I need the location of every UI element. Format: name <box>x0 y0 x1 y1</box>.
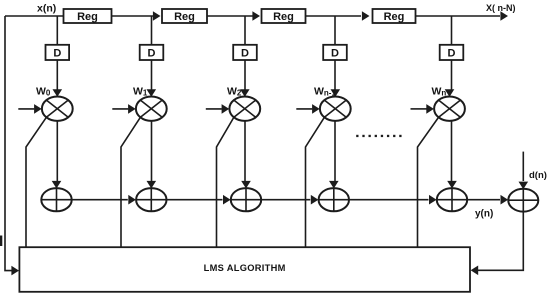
wire: y(n) output from adder A5 to error adder <box>467 199 500 201</box>
multiplier M3 (circle with X) <box>320 97 351 121</box>
svg-text:X( n-N): X( n-N) <box>486 3 516 13</box>
wire: weight input arrow into multiplier 2 <box>112 108 128 110</box>
svg-text:Reg: Reg <box>273 11 294 23</box>
wire: bus Reg1 to Reg2 <box>112 15 154 17</box>
wire: bus Reg3 to Reg4 <box>306 15 362 17</box>
svg-text:LMS ALGORITHM: LMS ALGORITHM <box>204 263 286 273</box>
wire: D output down into multiplier (column 2) <box>151 60 153 90</box>
wire: weight input arrow into multiplier 3 <box>206 108 222 110</box>
wire: tap 2 from bus down to delay D <box>151 16 153 45</box>
wire: D output down into multiplier (column 3) <box>244 60 246 90</box>
svg-text:D: D <box>53 48 61 60</box>
register Reg4 <box>373 9 416 23</box>
wire: adder A1 output to adder A2 <box>72 199 128 201</box>
svg-text:D: D <box>241 48 249 60</box>
wire: weight tap diagonal from multiplier 4 down to LMS block <box>306 117 325 247</box>
svg-text:D: D <box>148 48 156 60</box>
wire: multiplier 5 product down into adder <box>451 121 453 181</box>
multiplier M0 (circle with X) <box>42 97 73 121</box>
LMS algorithm block <box>19 247 470 292</box>
multiplier M4 (circle with X) <box>434 97 465 121</box>
wire: d(n) input down into error adder <box>522 152 524 181</box>
svg-text:Wn: Wn <box>432 85 447 97</box>
adder A4 (circle with +) <box>319 188 349 211</box>
delay block D (column 1) <box>46 45 70 60</box>
wire: multiplier 1 product down into adder <box>56 121 58 181</box>
dots: ellipsis between stage 4 and stage n <box>356 135 358 137</box>
artifact: dark mark on left edge <box>0 236 2 247</box>
multiplier M1 (circle with X) <box>136 97 167 121</box>
wire: bus Reg4 to output X(n-N) <box>416 15 501 17</box>
svg-text:W0: W0 <box>36 85 51 97</box>
adder A5 (circle with +) <box>437 188 467 211</box>
svg-text:d(n): d(n) <box>529 170 547 181</box>
wire: input bus from top-left corner to Reg1 <box>5 15 64 17</box>
svg-text:Reg: Reg <box>384 11 405 23</box>
wire: weight input arrow into multiplier 1 <box>18 108 34 110</box>
wire: multiplier 3 product down into adder <box>244 121 246 181</box>
wire: adder A3 output to adder A4 <box>261 199 310 201</box>
svg-text:W1: W1 <box>133 85 148 97</box>
wire: tap 4 from bus down to delay D <box>334 16 336 45</box>
wire: tap 3 from bus down to delay D <box>244 16 246 45</box>
svg-text:Reg: Reg <box>77 11 98 23</box>
wire: D output down into multiplier (column 5) <box>451 60 453 90</box>
svg-text:Reg: Reg <box>174 11 195 23</box>
wire: weight tap diagonal from multiplier 5 down to LMS block <box>418 117 439 247</box>
delay block D (column 2) <box>140 45 164 60</box>
delay block D (column 5) <box>440 45 464 60</box>
register Reg1 <box>64 9 112 23</box>
wire: adder A4 output to adder A5 <box>349 199 429 201</box>
wire: adder A2 output to adder A3 <box>167 199 223 201</box>
adder A1 (circle with +) <box>41 188 71 211</box>
wire: D output down into multiplier (column 1) <box>56 60 58 90</box>
svg-text:D: D <box>448 48 456 60</box>
wire: multiplier 2 product down into adder <box>151 121 153 181</box>
wire: weight input arrow into multiplier 4 <box>296 108 312 110</box>
wire: feedback from x(n) bus down left side into LMS input <box>5 16 12 271</box>
wire: weight tap diagonal from multiplier 3 down to LMS block <box>217 117 234 247</box>
wire: tap 1 from bus down to delay D <box>56 16 58 45</box>
svg-text:W2: W2 <box>227 85 242 97</box>
wire: bus Reg2 to Reg3 <box>207 15 253 17</box>
register Reg3 <box>262 9 306 23</box>
wire: weight tap diagonal from multiplier 1 down to LMS block <box>26 117 46 247</box>
delay block D (column 4) <box>323 45 347 60</box>
wire: multiplier 4 product down into adder <box>334 121 336 181</box>
adder A3 (circle with +) <box>231 188 261 211</box>
svg-text:D: D <box>331 48 339 60</box>
adder A2 (circle with +) <box>136 188 166 211</box>
register Reg2 <box>162 9 207 23</box>
svg-text:y(n): y(n) <box>475 209 493 220</box>
adder A6 error summer (circle with +) <box>508 189 538 212</box>
wire: error e(n) from adder A6 down and into LMS right side <box>478 212 523 271</box>
multiplier M2 (circle with X) <box>229 97 260 121</box>
wire: weight tap diagonal from multiplier 2 down to LMS block <box>121 117 140 247</box>
svg-text:x(n): x(n) <box>37 3 56 15</box>
wire: weight input arrow into multiplier 5 <box>411 108 427 110</box>
delay block D (column 3) <box>233 45 257 60</box>
wire: D output down into multiplier (column 4) <box>334 60 336 90</box>
wire: tap 5 from bus down to delay D <box>451 16 453 45</box>
